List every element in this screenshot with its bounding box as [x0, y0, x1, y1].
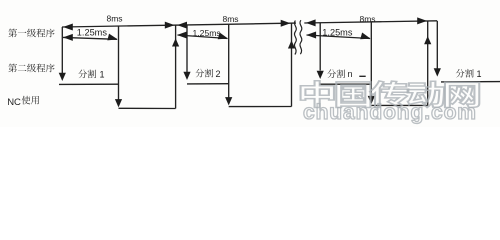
wire level2 segment P2 [187, 83, 229, 85]
svg-text:n: n [348, 69, 353, 79]
break squiggle lines [294, 21, 296, 55]
svg-text:8ms: 8ms [223, 14, 239, 24]
wire NC segment P2 [229, 106, 292, 108]
arrow down P3 drop [368, 96, 375, 104]
arrow down P2 drop [225, 97, 232, 105]
label fenge 1 right [456, 69, 465, 78]
watermark zhongguo chuandong wang [301, 81, 480, 108]
wire P3 drop vertical x371 [370, 22, 372, 99]
svg-text:8ms: 8ms [360, 14, 376, 24]
wire P4 start down arrow x437 [436, 21, 438, 70]
svg-text:1: 1 [100, 69, 105, 79]
wire NC segment P1 [119, 107, 176, 109]
wire rise vertical x175.5 [175, 25, 177, 108]
wire P1 start vertical x62 [61, 27, 63, 74]
label dash after fenge n [359, 75, 365, 77]
8ms arrow period 3 [306, 19, 316, 26]
label first-level program [8, 29, 17, 38]
8ms arrow period 2 [177, 22, 187, 29]
wire top line left of break [62, 23, 296, 27]
arrow up rise 1 [172, 38, 179, 46]
svg-text:1: 1 [477, 69, 482, 79]
wire rise vertical x284 [291, 23, 293, 106]
arrow up rise 3 [424, 36, 431, 44]
svg-text:NC: NC [7, 97, 21, 108]
label NC use: shiyong [22, 96, 31, 105]
arrow down P1 drop [115, 99, 122, 107]
label fenge n [327, 69, 336, 78]
svg-text:1.25ms: 1.25ms [193, 28, 221, 38]
svg-text:1.25ms: 1.25ms [322, 28, 353, 38]
1.25ms arrow P1 [63, 37, 117, 39]
wire P2 start down arrow x187 [186, 25, 188, 73]
wire P1 drop vertical x117.5 [118, 26, 120, 101]
svg-text:1.25ms: 1.25ms [77, 27, 108, 37]
wire rise vertical x429 [427, 21, 429, 106]
wire level2 segment P1 [59, 83, 119, 85]
arrow up rise 2 [288, 40, 295, 48]
arrow down P1 start [59, 73, 66, 81]
1.25ms arrow P2 [178, 35, 228, 39]
svg-text:8ms: 8ms [107, 14, 123, 24]
wire level2 segment P4 [441, 81, 500, 83]
wire top line right of break [304, 21, 437, 23]
1.25ms arrow P3 [307, 35, 371, 39]
svg-text:2: 2 [216, 69, 221, 79]
label fenge 1 [78, 70, 87, 79]
label fenge 2 [195, 69, 204, 78]
8ms arrow period 1 [63, 24, 73, 31]
svg-text:chuandong.com: chuandong.com [303, 101, 477, 124]
wire P2 drop vertical x228.6 [228, 24, 230, 99]
label second-level program [8, 64, 17, 73]
wire level2 segment P3 [320, 83, 372, 85]
wire NC segment P3 [371, 104, 427, 106]
wire P3 start down arrow x320.5 [319, 23, 321, 71]
